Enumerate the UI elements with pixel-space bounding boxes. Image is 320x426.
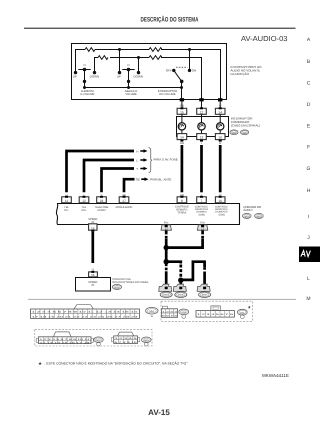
svg-text:1 2 3 4 5 6 7 8: 1 2 3 4 5 6 7 8: [197, 313, 235, 316]
svg-text:SOM): SOM): [198, 213, 204, 216]
footnote text: [45, 362, 188, 366]
svg-text:D: D: [307, 102, 311, 108]
svg-text:1 2 3 4 5: 1 2 3 4 5: [115, 337, 139, 340]
page number AV-15: [148, 408, 170, 417]
svg-text:L: L: [136, 158, 138, 162]
svg-text:M51: M51: [245, 215, 250, 218]
node: junction bus2 / DOWN2: [137, 56, 140, 59]
svg-text:13: 13: [200, 136, 204, 140]
wire: harness A from E04 left down: [165, 231, 168, 263]
wire: TEL RX+ stub: [83, 160, 134, 192]
label: controle remoto terra: [175, 206, 189, 215]
combination switch (spiral cable) box: [177, 117, 229, 137]
section index letter M: [306, 296, 310, 302]
page title: [141, 16, 199, 24]
svg-text:I: I: [308, 214, 309, 220]
svg-text:VOLUME: VOLUME: [125, 93, 137, 96]
connector face view: 8-pin grid: [162, 306, 179, 317]
label: interruptor do volume: [158, 90, 177, 96]
wire: SPEED signal to panel switch assembly: [91, 232, 94, 263]
node: junction J1: [164, 245, 169, 250]
pin 7 audio unit (remoto B): [197, 196, 207, 203]
svg-text:23: 23: [100, 199, 104, 203]
wire: TEL RX- stub to AV phone: [65, 151, 134, 192]
svg-text:J: J: [307, 235, 310, 241]
section index letter J: [307, 235, 310, 241]
resistor R4: [149, 56, 162, 60]
spiral cable coil 1: [178, 114, 185, 133]
pin 12 audio unit (TEL RX+): [79, 196, 89, 203]
wire color label H: [136, 149, 138, 153]
svg-text:11: 11: [65, 199, 69, 203]
svg-text:W: W: [219, 105, 222, 108]
svg-text:MODULADOR: MODULADOR: [116, 206, 133, 209]
label: controle remoto B diminui som: [195, 205, 209, 216]
wire color label above panel switch pin: [91, 269, 94, 272]
connector face id oval with key circle 1: [179, 309, 189, 318]
section index letter H: [307, 188, 311, 194]
svg-text:★: ★: [38, 361, 42, 366]
section index letter I: [308, 214, 309, 220]
label: SPEED 2P inside panel box: [88, 281, 97, 287]
svg-text:PARA BL. ANTE: PARA BL. ANTE: [150, 177, 171, 181]
resistor R3: [149, 48, 162, 52]
connector oval M35: [230, 130, 238, 135]
svg-text:B: B: [307, 59, 311, 65]
svg-text:E: E: [307, 124, 311, 130]
wire color label L: [136, 158, 138, 162]
svg-text:SB: SB: [136, 178, 140, 182]
wire: modulador stub: [123, 179, 135, 192]
svg-text:M306: M306: [178, 294, 184, 297]
svg-text:16: 16: [91, 226, 95, 230]
svg-text:17 18 19 20 21 22 23 24 25 26: 17 18 19 20 21 22 23 24 25 26 27 28 29: [32, 316, 140, 319]
connector oval M52 audio unit: [255, 213, 264, 218]
switch SW2 volume up/down: [117, 63, 143, 87]
resistor R1: [85, 48, 95, 52]
svg-text:12 13 14 15 16 17 18: 12 13 14 15 16 17 18: [40, 341, 92, 344]
svg-text:10: 10: [218, 199, 222, 203]
svg-text:1 2 3 4: 1 2 3 4: [162, 310, 179, 313]
svg-text:M52: M52: [257, 215, 262, 218]
svg-text:M: M: [306, 296, 310, 302]
svg-text:8: 8: [181, 199, 183, 203]
connector face id oval with key circle 3: [94, 337, 103, 346]
arrow to antenna relay (SB): [141, 177, 148, 181]
wire color label L: [201, 105, 203, 108]
section index letter A: [307, 37, 311, 43]
AV section tab: [299, 247, 320, 263]
svg-text:17: 17: [122, 199, 126, 203]
svg-text:N: N: [83, 63, 85, 67]
steering audio switch box outline: [72, 44, 227, 100]
label: controle remoto A aumenta som: [215, 205, 229, 216]
svg-text:S/B: S/B: [180, 142, 184, 145]
footer divider line: [28, 298, 296, 301]
pin 23 audio unit (telefone mudo): [97, 196, 107, 203]
star marker on dashed box 1: [248, 305, 252, 310]
svg-text:DESCRIÇÃO DO SISTEMA: DESCRIÇÃO DO SISTEMA: [141, 16, 199, 24]
section index letter B: [307, 59, 311, 65]
pin 17 audio unit (modulador): [119, 196, 129, 203]
spiral cable coil 2: [198, 114, 205, 133]
svg-text:TERRA: TERRA: [178, 211, 187, 214]
switch SW1 volume up/down: [73, 63, 99, 87]
pin 15 spiral cable upper: [177, 107, 187, 114]
svg-text:1 2 3 4 5 6 7 8 9 10 11 12 13: 1 2 3 4 5 6 7 8 9 10 11 12 13 14 15 16: [32, 311, 140, 314]
svg-text:M307: M307: [202, 294, 208, 297]
label: interruptores do audio no volante: [231, 65, 263, 76]
svg-text:DA DIREÇÃO: DA DIREÇÃO: [231, 72, 250, 76]
connector oval M306 termination 2: [175, 292, 187, 298]
svg-text:O VOLUME: O VOLUME: [80, 93, 94, 96]
svg-text:S/B: S/B: [180, 105, 184, 108]
section index letter L: [307, 276, 310, 282]
pin 14 spiral cable lower: [177, 134, 187, 142]
svg-text:★: ★: [248, 305, 252, 310]
wire: J3 loop over to termination 3: [181, 262, 205, 286]
label: SPEED 2P connector: [88, 218, 97, 224]
label: para o av. fone: [154, 158, 178, 162]
termination connector T3: [197, 284, 210, 291]
connector face view: 10-pin block: [112, 332, 140, 344]
wire color label W: [219, 105, 222, 108]
wire exit pad middle column: [199, 98, 203, 101]
connector oval M32 panel: [112, 284, 121, 289]
svg-text:ON: ON: [192, 69, 197, 73]
svg-text:SOM): SOM): [218, 213, 224, 216]
svg-text:AV-15: AV-15: [148, 408, 170, 417]
svg-text:OFF: OFF: [166, 69, 172, 73]
wire: DOWN2 tap to bus2: [138, 58, 140, 73]
pin 8 audio unit (remoto terra): [177, 196, 187, 203]
svg-text:(CABO EM ESPIRAL): (CABO EM ESPIRAL): [231, 123, 260, 127]
connector face id oval with key circle 2: [237, 309, 247, 318]
connector E04 left (on unit bottom): [161, 221, 171, 230]
wire color label Y: [136, 167, 138, 171]
spiral cable coil 3: [217, 114, 224, 133]
switch SW3 on/off: [166, 50, 197, 88]
connector oval M36: [241, 130, 249, 135]
wire: J3 to termination 2: [179, 280, 182, 285]
svg-text:DOWN: DOWN: [90, 75, 100, 79]
svg-text:M305: M305: [163, 294, 169, 297]
section index letter G: [307, 166, 311, 172]
termination connector T2: [173, 284, 186, 291]
label: TEL RX-: [64, 206, 69, 212]
svg-text:PARA O AV. FONE: PARA O AV. FONE: [154, 158, 178, 162]
section index letter E: [307, 124, 311, 130]
svg-text:H: H: [136, 149, 138, 153]
svg-text:UP: UP: [73, 75, 77, 79]
svg-text:N: N: [127, 63, 129, 67]
label: conjunto de interruptores do painel: [112, 278, 149, 284]
svg-text:W: W: [219, 142, 222, 145]
section index letter D: [307, 102, 311, 108]
wire color label SB: [136, 178, 140, 182]
svg-text:L: L: [201, 105, 203, 108]
label: aumenta o volume: [80, 90, 94, 96]
wire color labels above audio unit pins: [66, 194, 222, 197]
svg-text:5 6 7 8: 5 6 7 8: [162, 315, 179, 318]
connector face view: audio unit 46-pin strip: [31, 305, 140, 319]
node: junction bus1 / ON contact: [188, 48, 191, 51]
connector oval M307 termination 3: [199, 292, 211, 298]
wire color labels under spiral cable: [180, 142, 222, 145]
connector E04 right (on unit bottom): [197, 221, 207, 230]
svg-text:W: W: [151, 315, 154, 318]
svg-text:RX+: RX+: [81, 209, 87, 212]
resistor R2: [98, 56, 108, 60]
section index letter C: [307, 81, 311, 87]
wire: shield drain dashed drop: [179, 265, 182, 278]
wire: thick harness drop C (remote A): [219, 145, 222, 192]
svg-text:6 7 8 9 10: 6 7 8 9 10: [115, 341, 139, 344]
pin 14 spiral cable upper: [215, 107, 225, 114]
wire color label S/B: [180, 105, 184, 108]
svg-text:H: H: [307, 188, 311, 194]
svg-text:12: 12: [82, 199, 86, 203]
connector oval M51 face id: [146, 307, 158, 318]
svg-text:2P: 2P: [91, 284, 94, 287]
svg-text:14: 14: [180, 136, 184, 140]
wire: resistor bus 2 (lower): [95, 58, 202, 100]
svg-text:16: 16: [91, 273, 95, 277]
wire: drops to spiral cable connector: [182, 101, 220, 108]
wire: common ground bus of switches: [83, 86, 183, 99]
svg-text:14: 14: [218, 110, 222, 114]
label: telefone mudo: [95, 206, 109, 212]
connector face view: 8-pin row: [196, 306, 235, 317]
connector oval M305 termination 1: [160, 292, 172, 298]
wire: harness B from E04 right down and across: [166, 231, 202, 248]
connector oval M51 audio unit: [243, 213, 252, 218]
pin 16 spiral cable lower: [215, 134, 225, 142]
wire: branch J2 to shield drain: [166, 262, 181, 264]
arrow to AV phone (L): [140, 158, 147, 162]
wire: thick harness drop A (remote ground): [181, 145, 184, 192]
node: junction J2: [164, 259, 169, 264]
wire: resistor bus 1 (top): [76, 50, 221, 100]
pin 16 SPEED connector: [89, 224, 97, 232]
svg-text:: ESTE CONECTOR NÃO É MOSTRADO: : ESTE CONECTOR NÃO É MOSTRADO NA "DISPO…: [45, 362, 188, 366]
dashed group box 1: [161, 301, 253, 321]
wire exit pad right column: [218, 98, 222, 101]
pin 16 panel switch assembly: [89, 271, 98, 277]
label: TEL RX+: [81, 206, 87, 212]
panel switch assembly box: [76, 278, 111, 292]
arrow to AV phone (H): [140, 149, 147, 153]
svg-text:ÁUDIO: ÁUDIO: [243, 208, 253, 212]
svg-text:L: L: [307, 276, 310, 282]
schematic sheet code AV-AUDIO-03: [241, 34, 288, 43]
svg-text:16: 16: [218, 136, 222, 140]
svg-text:F: F: [307, 145, 310, 151]
dashed group box 2: [35, 330, 152, 346]
svg-text:E04: E04: [200, 221, 205, 224]
svg-text:E04: E04: [164, 221, 169, 224]
drawing number MKWA4411E: [262, 373, 289, 378]
label: abaixa o volume: [125, 90, 137, 96]
label: para bl. ante: [150, 177, 171, 181]
wire: telefone mudo stub: [100, 169, 134, 193]
wire: UP2 tap to bus1: [119, 50, 121, 73]
svg-text:Y: Y: [136, 167, 138, 171]
termination connector T1: [159, 284, 172, 291]
svg-text:15: 15: [180, 110, 184, 114]
label: interruptor combinado (cabo em espiral): [231, 116, 260, 127]
pin 13 spiral cable lower: [197, 134, 207, 142]
pin 11 audio unit (TEL RX-): [62, 196, 72, 203]
connector face id oval with key circle 4: [142, 337, 152, 346]
node: junction bus1 / UP2: [118, 48, 121, 51]
pin 10 audio unit (remoto A): [215, 196, 225, 203]
label: unidade de audio: [243, 205, 261, 212]
svg-text:DO VOLUME: DO VOLUME: [159, 93, 175, 96]
svg-text:G: G: [307, 166, 311, 172]
section index letter F: [307, 145, 310, 151]
svg-text:M35: M35: [232, 131, 237, 134]
audio unit box: [56, 204, 239, 225]
pin 12 spiral cable upper: [197, 107, 207, 114]
bracket for AV phone wires: [149, 148, 152, 173]
wire: A below J2 to termination 1: [165, 264, 168, 286]
svg-text:MKWA4411E: MKWA4411E: [262, 373, 289, 378]
svg-text:M36: M36: [243, 131, 248, 134]
svg-text:1 2 3 4 5 6 7 8 9 10 11: 1 2 3 4 5 6 7 8 9 10 11: [40, 338, 92, 341]
svg-text:A: A: [307, 37, 311, 43]
svg-text:INTERRUPTORES DO PAINEL: INTERRUPTORES DO PAINEL: [112, 281, 149, 284]
node: junction J3: [178, 278, 183, 283]
svg-text:C: C: [307, 81, 311, 87]
svg-text:AV-AUDIO-03: AV-AUDIO-03: [241, 34, 288, 43]
svg-text:M51: M51: [149, 310, 154, 313]
svg-text:RX-: RX-: [64, 209, 69, 212]
wire exit pad left column: [180, 98, 184, 101]
wire: thick harness drop B (remote B): [200, 145, 203, 192]
footnote star: [38, 361, 42, 366]
connector face view: 12-pin strip: [36, 332, 93, 344]
svg-text:12: 12: [200, 110, 204, 114]
svg-text:DOWN: DOWN: [133, 75, 143, 79]
arrow to AV phone (Y): [140, 167, 147, 171]
svg-text:UP: UP: [117, 75, 121, 79]
svg-text:7: 7: [201, 199, 203, 203]
label: modulador: [116, 206, 133, 209]
svg-text:L: L: [201, 142, 203, 145]
header rule: [24, 28, 296, 29]
svg-text:MUDO: MUDO: [98, 209, 106, 212]
